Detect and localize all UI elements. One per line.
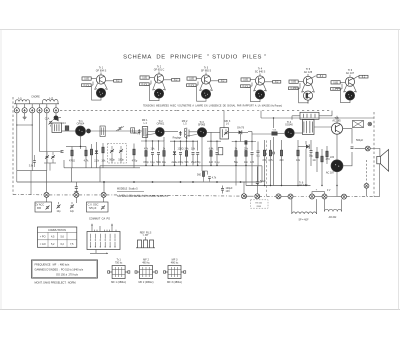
riser x240 to diode [240,133,242,141]
switch contact col 5 [109,234,111,239]
svg-text:CV ACC: CV ACC [35,204,45,207]
AR202 coil [325,209,342,211]
svg-text:5,2: 5,2 [51,243,55,246]
wire drop t4 [39,113,41,152]
svg-text:SCHÉMA DE PRINCIPE ” STUDIO: SCHÉMA DE PRINCIPE ” STUDIO PILES ” [123,54,267,61]
transistor Tr6 main filled [331,160,343,172]
svg-text:C1A: C1A [45,118,50,121]
junction to speaker [355,148,366,150]
padder trimmers [46,155,49,157]
svg-text:0,85: 0,85 [291,81,296,84]
svg-text:10V: 10V [226,190,231,193]
resistor 4,7k x270.5 [270,140,272,150]
svg-text:≠ GO: ≠ GO [40,243,46,246]
cap x306b [310,140,312,150]
svg-text:↖ BT: ↖ BT [142,233,149,237]
junction circle x46.5 [44,192,49,197]
wire drop t5 [46,113,48,171]
cap C2 [61,150,64,152]
svg-text:C13: C13 [61,123,66,125]
svg-text:0,1μ: 0,1μ [150,161,155,164]
MF3 riser to dashed line [223,111,225,128]
junction circle x257.3 [255,194,260,199]
svg-text:MONT. SANS PRESELECT. NORM.: MONT. SANS PRESELECT. NORM. [35,281,77,285]
wire osc-tr1 [62,130,76,132]
svg-text:SC 640 S: SC 640 S [255,71,266,74]
svg-text:0,85: 0,85 [189,78,194,81]
drop x290 [291,199,293,214]
frequence box [32,260,98,278]
dark box x100 on wire [100,126,105,137]
svg-text:AC 107: AC 107 [346,72,355,75]
battery link loop [312,192,325,194]
svg-text:220: 220 [330,156,335,159]
svg-text:MF 1: MF 1 [142,119,148,122]
svg-text:AR 202: AR 202 [329,216,337,219]
svg-text:AC 185: AC 185 [332,120,341,123]
svg-text:100μ: 100μ [178,161,184,164]
svg-text:220Ω: 220Ω [256,206,261,208]
svg-text:1k5: 1k5 [250,161,255,164]
diode OA79 [229,131,239,133]
svg-text:0,85: 0,85 [333,81,338,84]
resistor x103 [102,143,104,147]
bus y167.8 [64,167,140,169]
drop x324 [324,199,326,211]
bottom dash-dot bus [13,194,44,196]
osc transistor symbol [56,118,59,122]
CV ACC unit [46,197,48,202]
svg-text:150p: 150p [143,161,149,164]
svg-text:470p: 470p [195,161,201,164]
link t1-t3 y125 [17,124,32,126]
component string x193 (25&#956;) [191,141,196,166]
svg-text:4,5: 4,5 [51,235,55,238]
svg-text:120Ω: 120Ω [178,147,184,150]
cap x34.5 [34,155,36,161]
cadre coil L1 [16,100,30,102]
svg-text:40μ: 40μ [162,161,167,164]
svg-text:8,2: 8,2 [174,79,178,82]
svg-text:COMMUT CA PO: COMMUT CA PO [89,217,110,220]
right dashed border [373,112,375,197]
svg-text:9 V: 9 V [327,190,331,192]
cadre coil L3 [43,100,59,102]
svg-text:0,1μ: 0,1μ [215,161,220,164]
page top edge [0,29,400,31]
coupling cap dark blob [272,132,277,135]
svg-text:0,85: 0,85 [243,79,248,82]
svg-text:6,8k: 6,8k [209,147,214,150]
rail y146 output [298,146,309,148]
svg-text:2,2k: 2,2k [94,160,99,163]
resistor x317 [316,147,318,152]
svg-text:47Ω: 47Ω [262,159,267,162]
svg-text:50μ: 50μ [309,155,314,158]
junction circle x76.3 [74,192,79,197]
svg-text:560p: 560p [109,159,115,162]
junction circle x278.5 [276,194,281,199]
svg-text:COMMUTATION: COMMUTATION [48,229,66,232]
svg-text:7,5: 7,5 [70,243,74,246]
svg-text:750 kc: 750 kc [115,260,123,264]
pinout diagram MF 1 (480kc) [108,258,130,284]
middle trimmers [57,205,60,207]
svg-text:4,7k: 4,7k [268,159,273,162]
resistor 470p [133,144,135,150]
drop x104 [103,182,105,192]
svg-text:SF 965 S: SF 965 S [201,70,212,73]
junction circle x312 [310,194,315,199]
pinout diagram MF 3 (480kc) [164,258,186,284]
component string x236 (50&#956;) [234,141,239,166]
resistor 470 out [321,149,323,156]
dashed net line (terminals to right) [60,109,177,111]
cadre bar [14,103,59,105]
svg-text:6,2: 6,2 [60,243,64,246]
switch box top ticks [94,230,96,232]
terminal circle 3 [30,108,35,113]
switch arrow bottom [95,250,97,254]
page left edge [0,30,2,310]
svg-text:OF 604 S: OF 604 S [96,70,107,73]
svg-text:C.V. OSC: C.V. OSC [88,204,99,207]
svg-text:TENSIONS MESURÉES AVEC VOLT: TENSIONS MESURÉES AVEC VOLTMETRE A LAMPE… [143,104,282,107]
wire Tr5 top to box [336,116,338,123]
dashed trim box [108,144,127,164]
resistor x91.5 [91,144,93,149]
svg-text:4μF: 4μF [209,161,214,164]
svg-text:OF 601 C: OF 601 C [154,69,165,72]
drop to bottom x31 [30,171,32,195]
switch contact col 1 [90,234,92,239]
RG102 labels [251,200,269,208]
wire pot down [273,137,275,152]
top feed wire y118 [261,117,374,119]
switch box [87,232,120,250]
svg-text:725 pF: 725 pF [89,207,97,210]
ref fils diagram [138,240,142,248]
trimmer C14 [119,127,122,129]
dark blob C1B [65,126,69,131]
speaker [377,156,381,163]
svg-text:MF 3: MF 3 [225,120,231,123]
component string x246 (10n) [244,141,249,166]
terminal circle 6 [53,108,58,113]
svg-text:≠ PO: ≠ PO [40,235,46,238]
svg-text:5k6: 5k6 [185,161,190,164]
svg-text:MF 2: MF 2 [182,120,188,123]
resistor 220 x281.5 [281,140,283,150]
component string x252 (1k5) [250,141,255,166]
component string x180.5 (100&#956;) [178,141,184,166]
svg-text:5,6: 5,6 [60,235,64,238]
speaker return wire [379,164,381,197]
sub-circuit under Tr3 [201,137,203,171]
svg-text:0,85: 0,85 [142,77,147,80]
component rail y141 segments [141,140,164,142]
svg-text:SF965: SF965 [198,123,206,126]
resistor 470 [71,147,73,151]
t4 branch [40,151,63,153]
extensions to lower bus [235,165,237,185]
commutation table [37,227,76,247]
switch arrows top [91,224,93,232]
cap column x258 [257,142,259,151]
svg-text:8,2: 8,2 [320,75,324,78]
svg-text:12p: 12p [56,210,61,213]
left dashed border [12,97,14,195]
svg-text:365: 365 [37,207,42,210]
wire drop t6 [55,113,57,118]
svg-text:Reglage: Reglage [173,138,182,140]
svg-text:8,2: 8,2 [362,76,366,79]
zener [96,142,98,151]
svg-text:480 kc: 480 kc [171,260,179,264]
svg-text:MF 1 (480kc): MF 1 (480kc) [111,280,126,284]
svg-text:SP = 4ΩF: SP = 4ΩF [298,220,309,222]
component string x174.5 (diode) [172,141,179,166]
drop x342 [341,199,343,211]
tick above x76 [74,190,78,192]
svg-text:8,2: 8,2 [116,80,120,83]
misc wires out [305,155,307,186]
antenna lower bus [17,170,47,172]
terminal circle 4 [37,108,42,113]
component string x146 (150p) [143,141,149,166]
resistor x246 dark [245,141,247,145]
wire drop t1 [16,113,18,171]
svg-text:MODELE Studio 5: MODELE Studio 5 [117,188,138,191]
wire Tr1 emitter down [80,136,82,149]
small box x218-224 [218,148,223,155]
AF section dashed divider [266,141,268,197]
svg-text:GO 150 à 270 kc/s: GO 150 à 270 kc/s [56,273,79,277]
driver transformer [303,120,315,135]
drop x76.3 [75,182,77,187]
transistor stage Tr4 (SC 640 S) [241,68,281,102]
page right edge [398,30,400,310]
terminal circle 1 [14,108,19,113]
svg-text:RG 102: RG 102 [255,203,262,205]
resistor x327 [326,146,328,151]
svg-text:MF 2 (480kc): MF 2 (480kc) [138,280,153,284]
wire drop t3 [31,113,33,171]
terminal circle 2 [22,108,27,113]
svg-text:8,2: 8,2 [275,81,279,84]
osc transformer L4 [52,123,62,132]
HP voice coil [292,212,317,214]
switch contact col 2 [94,234,96,239]
resistor 4,7k [85,147,87,151]
component string x197.7 (470p) [195,141,201,166]
switch contact col 6 [114,234,116,239]
component string x186.5 (5k6) [185,141,190,166]
svg-text:GAMMES D’ONDES : PO 510 à 164: GAMMES D’ONDES : PO 510 à 1640 kc/s [35,268,84,272]
svg-text:CADRE: CADRE [31,96,40,99]
junction circle x324.5 [322,194,327,199]
svg-text:8,2: 8,2 [221,80,225,83]
wire Tr1 collector [85,130,142,132]
bus junction dots [145,165,146,166]
svg-text:AC 125: AC 125 [304,71,313,74]
terminal ticks [15,102,17,104]
svg-text:SCHEMA REPRESENTE COMMUTE EN P: SCHEMA REPRESENTE COMMUTE EN PO [117,194,168,198]
svg-text:470Ω: 470Ω [69,160,75,163]
component string x164 (40&#956;) [162,141,167,166]
riser x71.5 [71,168,73,182]
component string x152.5 (0,1&#956;) [150,141,155,166]
trimmer C1A [49,121,52,123]
svg-text:0,85: 0,85 [84,78,89,81]
component string x211 (4&#956;F) [209,141,214,166]
resistor 47&#937; x264.5 [264,140,266,150]
terminal circle 5 [44,108,49,113]
svg-text:10n: 10n [244,161,249,164]
component string x158.5 (56&#937;) [156,141,161,166]
transistor stage Tr1 (OF 604 S) [82,67,122,100]
junction circle x244 [242,194,247,199]
wire osc to C1B [63,122,101,124]
CV OSC unit [75,197,77,203]
top right network box [300,112,319,119]
svg-text:220: 220 [279,159,284,162]
svg-text:470p: 470p [132,160,138,163]
page bottom edge [0,309,400,311]
svg-text:OF604: OF604 [77,122,85,125]
Tr5-Tr6 wires [336,134,338,160]
lower bus y182/185.5 [241,181,263,183]
thermistor diode [306,144,309,148]
resistor 10k x298 [297,140,299,150]
svg-text:0,1 V: 0,1 V [333,88,339,91]
svg-text:0,1 V: 0,1 V [291,87,297,90]
svg-text:50μF: 50μF [260,180,266,183]
bus y182 [17,181,241,183]
X box 560 [353,121,364,128]
svg-text:1Ω: 1Ω [312,159,315,162]
volume control wire [248,131,252,133]
wire drop t2 + ground [24,113,26,117]
junction circle x344 [342,194,347,199]
pinout diagram MF 2 (480kc) [135,258,157,284]
svg-text:56Ω: 56Ω [156,161,161,164]
transistor stage Tr6 (AC 107) [331,69,369,103]
svg-text:560μF: 560μF [356,139,364,142]
component string x217 (0,1&#956;) [215,141,220,166]
transistor stage Tr5 (AC 125) [289,68,327,103]
drop x316 [316,199,318,214]
svg-text:OF601: OF601 [157,122,165,125]
transistor stage Tr3 (SF 965 S) [187,67,227,102]
transistor stage Tr2 (OF 601 C) [140,66,180,101]
svg-text:SC640: SC640 [285,123,293,126]
svg-text:480 kc: 480 kc [142,260,150,264]
svg-text:4,7k: 4,7k [84,160,89,163]
svg-text:50μ: 50μ [234,161,239,164]
risers to transistors [145,135,147,141]
junction x366 y185.8 [364,183,369,188]
mid bus y165.4 [100,165,262,167]
svg-text:12p: 12p [70,210,75,213]
dark box x132 on wire [131,128,135,133]
switch contact col 4 [104,234,106,239]
switch contact col 3 [99,234,101,239]
svg-text:150p: 150p [133,133,139,135]
junction circle x290.5 [288,194,293,199]
wire box to dashed net [319,115,332,117]
svg-text:180p: 180p [118,159,124,162]
svg-text:MF 3 (480kc): MF 3 (480kc) [167,280,182,284]
small circle right of X box [368,122,372,126]
svg-text:OA 79: OA 79 [237,127,245,130]
svg-text:AC 187: AC 187 [326,172,335,175]
svg-text:FREQUENCE MF : 480 kc/s: FREQUENCE MF : 480 kc/s [35,262,71,266]
drop to junction x46.5 [46,171,48,193]
junction circle x103.6 [101,192,106,197]
